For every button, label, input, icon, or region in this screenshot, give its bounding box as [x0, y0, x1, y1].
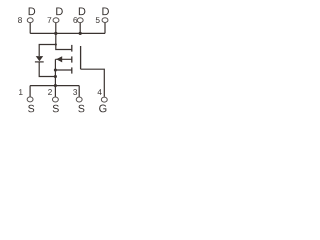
junction dot bottom bus at pin2 — [54, 84, 57, 87]
junction dot drain/diode node — [55, 43, 57, 45]
pin 3 terminal circle — [76, 97, 82, 102]
junction dot diode return node — [54, 75, 57, 78]
wire pin6 lead down to top bus — [79, 23, 81, 34]
pin 8 terminal circle — [27, 18, 33, 23]
pin 4 terminal circle — [101, 97, 107, 102]
pin number 3 — [73, 89, 77, 95]
pin 5 terminal circle — [102, 18, 108, 23]
wire pin1 lead up to bottom bus — [29, 86, 31, 97]
junction dot top bus at pin7 — [54, 32, 57, 35]
wire pin5 lead down to top bus — [104, 22, 106, 33]
wire diode cathode down and right to source node — [39, 62, 55, 76]
label S — [53, 105, 59, 113]
pin number 7 — [48, 17, 52, 23]
junction dot top bus at pin6 — [79, 32, 82, 35]
wire bottom source bus — [30, 85, 79, 87]
wire pin7 lead and drain branch down to drain stub corner — [56, 23, 72, 50]
pin 2 terminal circle — [52, 97, 58, 102]
wire top drain bus — [30, 32, 105, 34]
label D — [102, 8, 109, 16]
label G — [99, 105, 106, 113]
label S — [28, 105, 34, 113]
diode D1 body-diode triangle (pointing down) — [36, 56, 44, 61]
wire gate lead from gate bar right and down to pin4 — [81, 69, 105, 97]
junction dot source stub node — [54, 68, 57, 71]
transistor Q1 gate bar — [80, 46, 82, 69]
transistor Q1 body arrow (points left toward source) — [56, 56, 62, 62]
pin number 5 — [96, 17, 100, 23]
wire source stub to channel bottom dash — [55, 69, 71, 71]
transistor Q1 channel bottom dash (source) — [71, 67, 73, 73]
wire pin8 lead down to top bus — [29, 23, 31, 34]
label D — [56, 8, 63, 16]
pin number 1 — [19, 89, 23, 95]
label D — [79, 8, 86, 16]
label S — [78, 105, 84, 113]
label D — [29, 8, 36, 16]
pin 6 terminal circle — [77, 18, 83, 23]
wire pin3 lead up to bottom bus — [78, 86, 80, 97]
diode D1 cathode bar — [35, 61, 44, 63]
pin number 8 — [18, 17, 22, 23]
pin number 6 — [73, 17, 77, 23]
pin number 2 — [48, 89, 52, 95]
pin 1 terminal circle — [27, 97, 33, 102]
pin 7 terminal circle — [53, 18, 59, 23]
wire diode branch: from drain node left and down to diode anode — [39, 45, 56, 57]
transistor Q1 channel top dash (drain) — [71, 45, 73, 52]
wire body stub from arrow apex to channel middle dash — [55, 58, 71, 60]
pin number 4 — [98, 89, 102, 95]
transistor Q1 channel middle dash (body) — [71, 56, 73, 62]
wire source/body vertical down through bottom bus to pin2 — [54, 59, 56, 97]
